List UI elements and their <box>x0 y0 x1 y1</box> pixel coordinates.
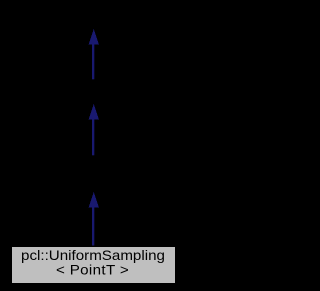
svg-text:pcl::UniformSampling: pcl::UniformSampling <box>21 248 165 263</box>
inheritance arrow 2 (middle) <box>89 104 99 155</box>
node pcl::UniformSampling< PointT > (current class, gray filled box) <box>12 247 176 284</box>
inheritance arrow 1 (top, to invisible base node) <box>89 29 99 79</box>
inheritance arrow 3 (bottom, from pcl::UniformSampling node) <box>89 192 99 246</box>
svg-text:< PointT >: < PointT > <box>56 263 129 278</box>
